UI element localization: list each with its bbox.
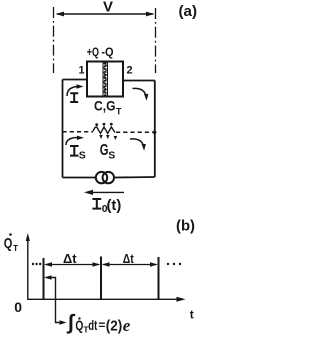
svg-text:(a): (a)	[179, 3, 198, 20]
svg-text:e: e	[123, 316, 131, 335]
svg-text:(t): (t)	[107, 198, 122, 214]
svg-text:dt: dt	[88, 317, 97, 333]
svg-text:(b): (b)	[176, 218, 195, 235]
svg-text:T: T	[13, 243, 19, 253]
svg-text:2: 2	[127, 65, 133, 77]
svg-text:G: G	[100, 142, 109, 159]
svg-text:=: =	[98, 318, 105, 332]
svg-text:T: T	[116, 107, 122, 117]
svg-text:V: V	[103, 0, 113, 16]
svg-text:t: t	[190, 308, 194, 322]
svg-text:+Q: +Q	[87, 45, 99, 59]
svg-text:S: S	[108, 150, 115, 162]
svg-text:Δt: Δt	[63, 252, 77, 266]
svg-text:(2): (2)	[106, 319, 123, 335]
svg-text:C,G: C,G	[94, 97, 116, 113]
svg-text:S: S	[79, 150, 86, 162]
svg-text:Δt: Δt	[123, 252, 135, 266]
svg-text:0: 0	[14, 299, 22, 315]
svg-text:Q: Q	[4, 235, 13, 252]
svg-text:-Q: -Q	[101, 45, 113, 59]
svg-text:1: 1	[79, 65, 85, 77]
svg-text:∫: ∫	[66, 311, 75, 334]
